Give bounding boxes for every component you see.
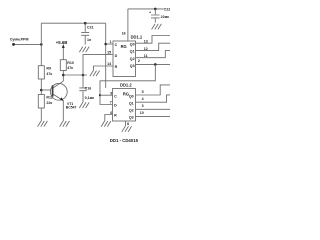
pin C of DD1.1 [106,43,113,45]
node junction clock pin 1 [104,43,107,46]
wire cascade Q3 to DD1.2 [100,64,155,104]
svg-text:DD1 - CD4015: DD1 - CD4015 [110,138,139,143]
node base junction [40,89,43,92]
svg-text:RG: RG [121,44,127,49]
ground at R pin DD1.1 [90,71,100,77]
svg-text:R10: R10 [67,61,74,65]
node C22 tap [154,8,157,11]
wire collector riser [62,75,64,81]
IC DD1.2 box [113,83,136,121]
wire top PPM rail [41,22,105,24]
node collector junction [62,74,65,77]
wire VDD top to C22 [128,8,163,10]
svg-text:C22: C22 [164,7,170,11]
svg-text:D: D [115,54,118,58]
svg-text:14: 14 [107,62,111,66]
capacitor C21 [81,23,93,44]
node PPM input terminal dot [12,43,15,46]
pin R of DD1.1 [94,66,114,71]
node C16 tap junction [82,74,85,77]
svg-text:3: 3 [142,104,144,108]
svg-text:7: 7 [110,101,112,105]
transistor VT1 BC547 [50,81,76,109]
svg-text:DD1.2: DD1.2 [120,83,132,88]
node junction input/R9 [40,43,43,46]
pin 8 VSS of DD1.2 [125,121,127,126]
svg-text:DD1.1: DD1.1 [131,34,143,39]
svg-text:Q1: Q1 [129,102,134,106]
ground under R11 [38,121,48,127]
wire vertical input riser to rail and down to R9 [40,23,42,65]
output Q2 of DD1.1 pin 11 [130,51,170,61]
svg-text:Q2: Q2 [130,57,135,61]
svg-text:4: 4 [142,97,144,101]
svg-text:1: 1 [110,40,112,44]
resistor R11 [38,95,53,109]
svg-text:C21: C21 [87,25,94,29]
wire R10 bottom to collector node [62,71,64,76]
svg-text:Сумм.PPM: Сумм.PPM [10,38,29,42]
svg-text:9: 9 [110,92,112,96]
output Q0 of DD1.1 pin 13 [130,36,170,47]
svg-text:Q1: Q1 [130,50,135,54]
svg-text:15: 15 [107,51,111,55]
wire D15 riser from collector node [83,55,113,75]
svg-text:2: 2 [138,59,140,63]
svg-text:16: 16 [122,31,126,35]
ground under C21 [79,47,89,53]
output Q1 of DD1.2 pin 4 [129,95,170,106]
wire R9 bottom to base node [40,79,42,95]
ground at VSS pin 8 [122,126,132,132]
svg-text:6: 6 [110,111,112,115]
IC DD1.1 box [113,34,143,76]
node cascade junction on Q3 [154,63,157,66]
node junction C21 tap [84,22,87,25]
output Q2 of DD1.2 pin 3 [129,104,170,112]
svg-text:22к: 22к [46,101,52,105]
capacitor C22 [149,7,170,22]
pin 16 VDD riser [127,9,129,41]
svg-text:Q0: Q0 [130,42,135,46]
svg-text:R9: R9 [46,67,51,71]
output Q0 of DD1.2 pin 5 [129,85,170,98]
pin R of DD1.2 [105,115,113,122]
svg-text:R: R [115,65,118,69]
svg-text:1н: 1н [87,38,91,42]
wire PPM input horizontal [14,43,42,45]
wire PPM vertical to DD1 clock column [105,23,107,88]
output Q1 of DD1.1 pin 12 [130,43,170,53]
svg-text:Q3: Q3 [129,116,134,120]
svg-text:+: + [149,11,151,15]
ground under C22 [152,24,162,30]
svg-text:+5.6В: +5.6В [56,40,68,45]
output Q3 of DD1.1 pin 2 [130,59,170,68]
svg-text:Q0: Q0 [129,94,134,98]
svg-text:Q2: Q2 [129,109,134,113]
node cascade clock tap [99,94,101,96]
svg-text:R: R [114,114,117,118]
wire R11 to ground [40,108,42,121]
svg-text:C: C [114,94,117,98]
wire collector node horizontal [63,74,87,76]
ground under C16 [79,102,89,108]
svg-text:47к: 47к [67,66,73,70]
power +5.6V arrow [56,40,68,60]
svg-text:C16: C16 [85,87,92,91]
ground at R pin DD1.2 [101,121,111,127]
resistor R10 [60,60,74,71]
svg-text:Q3: Q3 [130,64,135,68]
wire clock branch to pin 9 [100,94,113,96]
svg-text:10: 10 [140,111,144,115]
svg-text:22мк: 22мк [161,15,170,19]
svg-text:0,1мк: 0,1мк [85,96,95,100]
svg-text:5: 5 [142,90,144,94]
capacitor C16 [79,75,94,102]
svg-text:D: D [114,104,117,108]
ground under emitter [60,121,70,127]
resistor R9 [38,66,52,79]
svg-text:47к: 47к [46,72,52,76]
wire emitter down [62,101,64,121]
output Q3 of DD1.2 pin 10 [129,111,170,119]
svg-text:C: C [115,43,118,47]
svg-text:BC547: BC547 [66,105,77,109]
wire base [41,89,52,91]
svg-text:8: 8 [127,122,129,126]
